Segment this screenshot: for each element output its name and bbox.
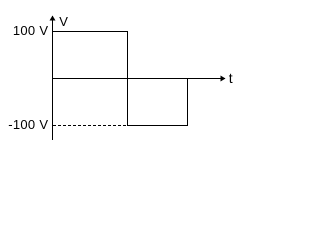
waveform: -100 V segment: [127, 125, 188, 127]
waveform: rising edge back to zero: [187, 78, 189, 126]
dashed -100 V reference line: [53, 125, 127, 127]
t axis (horizontal): [52, 76, 226, 82]
V axis (vertical): [50, 16, 56, 141]
svg-text:t: t: [229, 70, 233, 86]
waveform: +100 V segment: [52, 31, 128, 33]
svg-text:100 V: 100 V: [13, 23, 49, 38]
waveform: falling edge: [127, 31, 129, 126]
svg-text:V: V: [59, 14, 68, 29]
svg-text:-100 V: -100 V: [8, 117, 48, 132]
